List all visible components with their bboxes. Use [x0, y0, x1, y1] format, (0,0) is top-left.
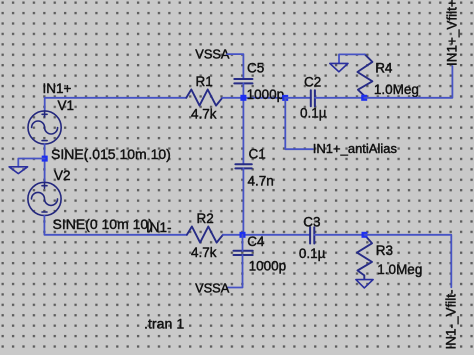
- svg-text:C3: C3: [303, 215, 320, 230]
- resistor R1: [186, 90, 222, 106]
- junction between V1 and V2: [42, 156, 48, 162]
- svg-text:SINE(0 10m 10): SINE(0 10m 10): [53, 216, 153, 232]
- wire C2 to R4 junction: [315, 97, 364, 99]
- wire C1 to bottom rail: [242, 168, 244, 234]
- svg-text:.tran 1: .tran 1: [144, 316, 184, 332]
- wire VSSA to C5: [227, 54, 243, 79]
- svg-text:1.0Meg: 1.0Meg: [377, 262, 422, 277]
- svg-text:R3: R3: [376, 243, 393, 258]
- wire top rail to right edge and up: [364, 66, 452, 98]
- wire C5 to junction and down to C1: [242, 83, 244, 164]
- junction C5/top rail: [240, 95, 246, 101]
- svg-text:IN1+: IN1+: [43, 81, 72, 96]
- wire V2 bottom stub and bottom rail to R2: [44, 216, 187, 235]
- svg-text:C1: C1: [249, 147, 266, 162]
- wire to ground from junction: [18, 159, 44, 167]
- wire bottom rail to C4 and down to VSSA stub: [227, 235, 243, 288]
- junction R3/bottom rail: [362, 232, 368, 238]
- voltage source V1: [28, 111, 61, 144]
- svg-text:IN1+_antiAlias: IN1+_antiAlias: [313, 141, 398, 156]
- svg-text:IN1-: IN1-: [146, 220, 172, 235]
- svg-text:SINE(.015 10m 10): SINE(.015 10m 10): [51, 146, 171, 162]
- wire V1 top stub: [44, 98, 46, 111]
- wire R4 top to ground: [339, 54, 365, 63]
- svg-text:4.7n: 4.7n: [248, 174, 274, 189]
- junction C1/bottom rail: [240, 232, 246, 238]
- wire C3 to R3 junction: [314, 234, 364, 236]
- svg-text:VSSA: VSSA: [195, 47, 230, 62]
- ground flag top: [330, 63, 348, 71]
- svg-text:1.0Meg: 1.0Meg: [374, 82, 419, 97]
- svg-text:R2: R2: [197, 211, 214, 226]
- svg-text:0.1µ: 0.1µ: [300, 106, 327, 121]
- svg-text:4.7k: 4.7k: [191, 245, 217, 260]
- svg-text:VSSA: VSSA: [195, 281, 230, 296]
- junction R4/top rail: [361, 95, 367, 101]
- voltage source V2: [28, 182, 61, 215]
- svg-text:1000p: 1000p: [247, 87, 285, 102]
- svg-text:C2: C2: [304, 75, 321, 90]
- wire R1 to node: [222, 97, 284, 99]
- svg-text:V2: V2: [54, 168, 71, 183]
- svg-text:4.7k: 4.7k: [191, 106, 217, 121]
- svg-text:1000p: 1000p: [249, 258, 287, 273]
- junction antialias tap: [282, 95, 288, 101]
- wire junction to C2: [285, 97, 311, 99]
- capacitor C1: [235, 164, 251, 168]
- ground flag left: [9, 167, 28, 174]
- capacitor C2: [311, 90, 315, 106]
- wire V1 bottom to V2 top: [44, 144, 46, 182]
- svg-text:C5: C5: [247, 61, 264, 76]
- wire antialias tap down and right: [285, 98, 313, 149]
- svg-text:R1: R1: [196, 74, 213, 89]
- resistor R4: [357, 54, 372, 97]
- wire bottom rail to right edge and down: [365, 235, 452, 287]
- capacitor C5: [234, 79, 252, 83]
- ground flag bottom: [356, 280, 373, 288]
- svg-text:C4: C4: [247, 234, 265, 249]
- capacitor C3: [310, 227, 314, 243]
- svg-text:0.1µ: 0.1µ: [299, 246, 326, 261]
- svg-text:V1: V1: [58, 98, 75, 113]
- svg-text:IN1+_Vfilt+: IN1+_Vfilt+: [445, 0, 460, 66]
- resistor R3: [357, 235, 372, 279]
- svg-text:R4: R4: [375, 61, 393, 76]
- svg-text:IN1-_Vfilt-: IN1-_Vfilt-: [444, 290, 459, 350]
- wire R2 to C3: [223, 234, 310, 236]
- resistor R2: [187, 227, 223, 243]
- capacitor C4: [234, 251, 253, 255]
- wire IN1+ top horizontal from V1 to R1: [45, 97, 187, 99]
